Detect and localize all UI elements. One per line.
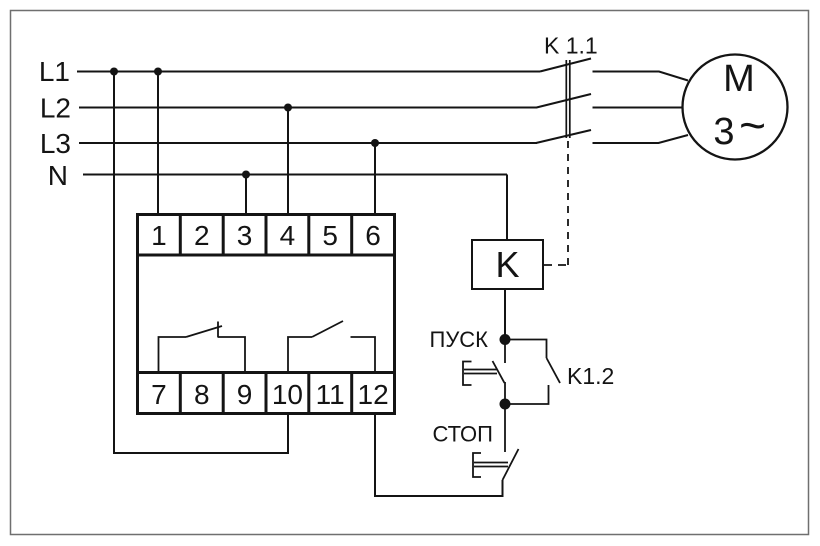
svg-text:L2: L2 xyxy=(40,93,71,124)
label L3 xyxy=(40,128,71,159)
relay device body (terminal block outline) xyxy=(136,215,396,414)
wire L1 to terminal 10 (left loop) xyxy=(114,72,288,454)
pin 8 xyxy=(194,379,210,410)
wire L3 to terminal 6 xyxy=(374,143,376,214)
node L2 (junction dot) xyxy=(284,104,292,112)
wire terminal 12 to stop button xyxy=(375,415,503,496)
terminal separators bottom strip (pins 7-12) xyxy=(180,373,351,416)
wire N xyxy=(83,174,507,176)
pin 12 xyxy=(358,379,389,410)
label STOP xyxy=(432,422,493,447)
label L2 xyxy=(40,93,71,124)
svg-text:9: 9 xyxy=(237,379,253,410)
pin 4 xyxy=(280,220,296,251)
pushbutton PUSK (NO start button) xyxy=(463,340,505,405)
wire K1.1 to motor (phase 1) xyxy=(593,72,689,144)
node PUSK bottom (junction dot) xyxy=(500,399,511,410)
pin 7 xyxy=(151,379,167,410)
svg-text:3: 3 xyxy=(237,220,253,251)
pushbutton STOP (NC stop button) xyxy=(473,404,519,480)
wire L2 xyxy=(79,107,537,109)
pin 2 xyxy=(194,220,210,251)
svg-text:L1: L1 xyxy=(39,56,70,87)
wire coil K to node PUSK xyxy=(504,289,506,340)
svg-text:K 1.1: K 1.1 xyxy=(544,33,598,59)
wire L3 xyxy=(79,142,537,144)
svg-text:11: 11 xyxy=(316,379,345,410)
wire L1 xyxy=(77,71,540,73)
contact K1.2 (self-holding, NO) xyxy=(505,340,560,405)
pin 1 xyxy=(151,220,167,251)
motor M1 (3~) xyxy=(683,55,788,160)
coil K (contactor) xyxy=(472,240,543,289)
node N (junction dot) xyxy=(242,171,250,179)
node L1-b (junction dot) xyxy=(154,68,162,76)
svg-text:6: 6 xyxy=(365,220,381,251)
pin 10 xyxy=(272,379,303,410)
svg-text:~: ~ xyxy=(739,99,766,151)
label PUSK xyxy=(430,327,489,352)
node L3 (junction dot) xyxy=(371,139,379,147)
svg-text:4: 4 xyxy=(280,220,296,251)
svg-text:СТОП: СТОП xyxy=(432,422,493,447)
svg-text:K1.2: K1.2 xyxy=(567,363,614,389)
svg-text:8: 8 xyxy=(194,379,210,410)
svg-text:5: 5 xyxy=(322,220,338,251)
contact K1.1 (3-pole, with mechanical link bar) xyxy=(536,59,591,144)
wire N to terminal 3 xyxy=(245,175,247,215)
K1.1 link bar xyxy=(566,60,570,138)
svg-text:2: 2 xyxy=(194,220,210,251)
label K 1.1 xyxy=(544,33,598,59)
pin 6 xyxy=(365,220,381,251)
dashed mechanical link to coil K xyxy=(544,141,568,265)
wire L2 to terminal 4 xyxy=(287,108,289,215)
label N xyxy=(48,160,68,191)
svg-text:L3: L3 xyxy=(40,128,71,159)
wire N to coil K xyxy=(506,175,508,241)
label K1.2 xyxy=(567,363,614,389)
svg-text:K: K xyxy=(495,244,519,285)
svg-text:ПУСК: ПУСК xyxy=(430,327,489,352)
wire L1 to terminal 1 xyxy=(157,72,159,215)
pin 3 xyxy=(237,220,253,251)
wire K1.1 to motor (phase 3) xyxy=(593,135,689,143)
pin 11 xyxy=(316,379,345,410)
internal relay contact NC (pins 7-9) xyxy=(159,322,246,373)
internal relay contact NO (pins 10-12) xyxy=(288,321,375,372)
label L1 xyxy=(39,56,70,87)
wire K1.1 to motor (phase 2) xyxy=(593,107,682,109)
svg-text:10: 10 xyxy=(272,379,303,410)
svg-text:7: 7 xyxy=(151,379,167,410)
svg-text:N: N xyxy=(48,160,68,191)
svg-text:M: M xyxy=(723,58,755,100)
pin 5 xyxy=(322,220,338,251)
terminal separators top strip (pins 1-6) xyxy=(180,213,351,255)
node L1-a (junction dot) xyxy=(110,68,118,76)
svg-text:1: 1 xyxy=(151,220,167,251)
node PUSK top (junction dot) xyxy=(500,334,511,345)
svg-text:12: 12 xyxy=(358,379,389,410)
pin 9 xyxy=(237,379,253,410)
svg-text:3: 3 xyxy=(713,111,734,153)
